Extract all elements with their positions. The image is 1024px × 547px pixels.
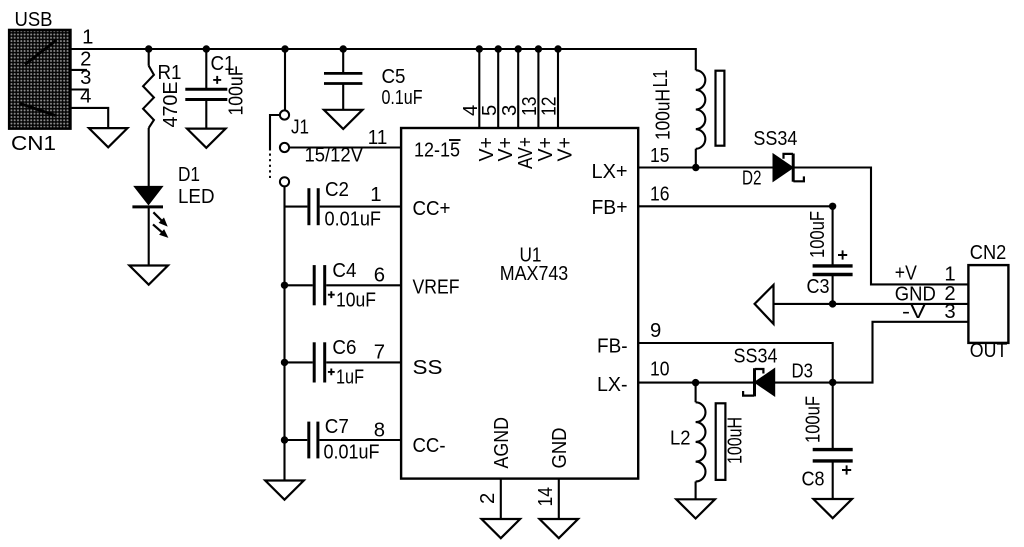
svg-text:4: 4 (80, 86, 91, 108)
svg-text:SS: SS (413, 357, 443, 379)
svg-text:1uF: 1uF (336, 367, 364, 389)
svg-text:C5: C5 (382, 66, 406, 88)
svg-text:100uF: 100uF (807, 211, 829, 258)
svg-text:AV+: AV+ (515, 137, 537, 169)
svg-text:C3: C3 (807, 276, 830, 298)
svg-text:GND: GND (549, 428, 571, 469)
svg-text:LX+: LX+ (592, 161, 628, 183)
svg-text:15/12V: 15/12V (305, 145, 364, 167)
svg-text:0.01uF: 0.01uF (324, 442, 380, 464)
svg-text:6: 6 (374, 265, 385, 287)
svg-text:C2: C2 (325, 179, 349, 201)
svg-text:SS34: SS34 (753, 128, 797, 150)
svg-text:D2: D2 (742, 167, 762, 189)
svg-text:C6: C6 (332, 337, 356, 359)
svg-text:-V: -V (902, 301, 927, 323)
svg-text:0.01uF: 0.01uF (325, 209, 382, 231)
svg-text:LX-: LX- (597, 374, 628, 396)
svg-text:100uF: 100uF (226, 66, 248, 116)
svg-text:5: 5 (479, 105, 501, 116)
svg-text:L1: L1 (650, 70, 672, 88)
svg-text:D3: D3 (792, 361, 814, 383)
svg-text:12-15: 12-15 (414, 140, 460, 162)
svg-text:8: 8 (374, 420, 385, 442)
svg-text:FB-: FB- (597, 335, 628, 357)
svg-text:AGND: AGND (491, 417, 513, 469)
svg-text:100uH: 100uH (653, 89, 675, 140)
svg-text:USB: USB (15, 9, 53, 31)
svg-text:7: 7 (374, 342, 385, 364)
svg-text:L2: L2 (670, 428, 691, 450)
svg-text:16: 16 (650, 184, 670, 206)
svg-text:C4: C4 (332, 260, 356, 282)
svg-text:3: 3 (499, 105, 521, 116)
svg-text:11: 11 (368, 127, 388, 149)
svg-text:15: 15 (650, 145, 670, 167)
svg-text:14: 14 (535, 487, 557, 507)
svg-text:CN2: CN2 (970, 242, 1007, 264)
svg-text:VREF: VREF (413, 277, 460, 299)
svg-text:470E: 470E (160, 82, 182, 128)
svg-text:C8: C8 (802, 468, 825, 490)
svg-text:9: 9 (650, 320, 661, 342)
svg-text:SS34: SS34 (734, 346, 778, 368)
svg-text:J1: J1 (291, 117, 309, 139)
svg-text:100uH: 100uH (725, 417, 747, 464)
svg-text:10: 10 (650, 359, 670, 381)
svg-text:0.1uF: 0.1uF (382, 87, 423, 109)
svg-text:OUT: OUT (970, 340, 1008, 362)
svg-text:CC-: CC- (413, 435, 446, 457)
svg-text:12: 12 (539, 97, 561, 117)
svg-text:+V: +V (895, 263, 917, 285)
svg-text:1: 1 (82, 27, 93, 49)
svg-text:R1: R1 (158, 62, 182, 84)
svg-text:LED: LED (178, 186, 215, 208)
svg-text:1: 1 (370, 184, 381, 206)
svg-text:FB+: FB+ (592, 197, 628, 219)
svg-text:3: 3 (944, 301, 955, 323)
svg-text:2: 2 (477, 493, 499, 504)
svg-text:V+: V+ (555, 137, 577, 162)
svg-text:V+: V+ (495, 137, 517, 162)
svg-text:MAX743: MAX743 (500, 263, 569, 285)
svg-text:100uF: 100uF (803, 396, 825, 443)
svg-text:CN1: CN1 (11, 133, 56, 155)
svg-text:CC+: CC+ (413, 198, 451, 220)
svg-text:D1: D1 (178, 164, 200, 186)
svg-text:10uF: 10uF (336, 289, 376, 311)
svg-text:C7: C7 (325, 416, 349, 438)
